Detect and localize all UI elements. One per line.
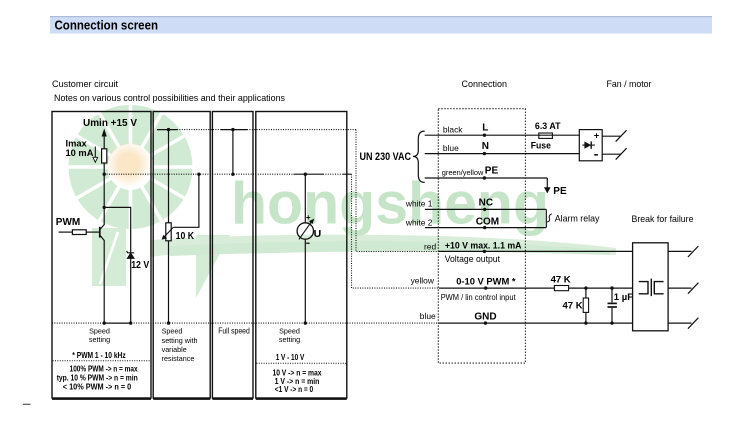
wire rectifier out bottom <box>602 153 621 155</box>
wire motor out 1 <box>668 250 691 252</box>
svg-text:+: + <box>306 213 311 222</box>
svg-text:hongsheng: hongsheng <box>231 171 549 237</box>
svg-text:Customer circuit: Customer circuit <box>52 79 118 89</box>
svg-text:typ. 10 % PWM -> n = min: typ. 10 % PWM -> n = min <box>57 374 138 383</box>
svg-text:Speed: Speed <box>162 327 183 336</box>
wire 10K top <box>168 130 170 223</box>
svg-text:UN 230 VAC: UN 230 VAC <box>360 151 412 163</box>
node dot 10K top <box>167 128 170 131</box>
wire 10K bottom to gnd <box>168 241 170 323</box>
svg-text:black: black <box>443 124 463 134</box>
slash break top <box>616 130 627 141</box>
full speed jumper wire <box>232 130 234 175</box>
box 2 variable resistance <box>153 112 210 399</box>
box 1 customer circuit PWM <box>52 112 151 399</box>
svg-text:PE: PE <box>553 186 567 197</box>
alarm relay brace <box>547 214 552 222</box>
fuse F1 <box>539 133 553 138</box>
resistor R1 (current limit) <box>102 149 107 163</box>
svg-text:1 V - 10 V: 1 V - 10 V <box>276 353 305 362</box>
node dot cap bottom <box>610 321 613 324</box>
page corner dash <box>23 403 31 405</box>
svg-text:blue: blue <box>420 311 436 321</box>
node dot voltmeter tap <box>304 173 307 176</box>
resistor 47K vertical <box>583 298 588 312</box>
svg-text:GND: GND <box>474 311 496 322</box>
svg-text:10 mA: 10 mA <box>66 148 94 158</box>
svg-text:resistance: resistance <box>162 354 195 363</box>
arrow down Imax <box>93 147 98 163</box>
wire green/yellow PE <box>425 177 548 179</box>
node dot PE <box>483 176 486 179</box>
wire black L <box>425 134 580 136</box>
svg-text:10 K: 10 K <box>176 231 195 242</box>
node dot zener gnd <box>129 321 132 324</box>
svg-text:Notes on various control possi: Notes on various control possibilities a… <box>54 93 285 103</box>
watermark orange circle <box>106 141 152 187</box>
dotted drop +10V to red wire <box>356 130 439 252</box>
svg-text:U: U <box>314 228 322 240</box>
svg-text:blue: blue <box>443 143 459 153</box>
wire emitter to gnd line <box>103 240 105 323</box>
resistor R2 (base) <box>72 230 86 235</box>
wire branch to zener <box>104 207 131 252</box>
voltmeter U1 circle <box>297 223 313 239</box>
svg-text:Alarm relay: Alarm relay <box>555 213 600 224</box>
control line dotted through boxes <box>104 173 351 175</box>
resistor 47K horizontal <box>554 286 568 291</box>
wire white2 COM <box>425 227 546 229</box>
svg-text:<1 V -> n = 0: <1 V -> n = 0 <box>275 385 314 394</box>
svg-text:white 2: white 2 <box>405 218 433 228</box>
node dot jumper top <box>231 128 234 131</box>
label minus <box>594 154 598 156</box>
wire wiper tap <box>173 174 199 227</box>
label Imax 10 mA <box>66 138 94 158</box>
wire rectifier out top <box>602 135 621 137</box>
svg-text:setting with: setting with <box>162 336 198 345</box>
svg-text:* PWM 1 - 10 kHz: * PWM 1 - 10 kHz <box>72 351 125 360</box>
gnd solid segment box1 <box>104 322 131 324</box>
node dot emitter gnd <box>103 321 106 324</box>
slash break bottom <box>616 148 627 159</box>
slash break motor 1 <box>688 246 699 257</box>
wire 47K vertical <box>585 288 587 323</box>
node dot 10K gnd <box>167 321 170 324</box>
wire zener to gnd line <box>130 258 132 323</box>
node dot NC <box>483 208 486 211</box>
voltmeter arrow <box>299 219 314 240</box>
node dot L <box>483 134 486 137</box>
box4 dotted separator <box>256 362 346 364</box>
wire red +10V <box>439 250 633 252</box>
wire base <box>86 231 99 233</box>
svg-text:Fan / motor: Fan / motor <box>607 79 652 89</box>
watermark sunburst petals <box>68 105 192 229</box>
box1 label speed setting <box>89 327 110 344</box>
svg-text:Connection screen: Connection screen <box>55 18 159 33</box>
node dot N <box>483 152 486 155</box>
watermark swoosh <box>150 235 616 257</box>
watermark stem gap <box>100 232 118 284</box>
+10V top line through boxes <box>157 129 356 131</box>
potentiometer 10K body <box>166 223 171 241</box>
gnd dotted line across boxes <box>52 322 439 324</box>
svg-text:Full speed: Full speed <box>218 327 250 336</box>
svg-text:Imax: Imax <box>66 138 88 148</box>
box1 PWM mapping text <box>57 365 138 392</box>
box1 dotted separator <box>53 360 151 362</box>
svg-text:setting: setting <box>279 335 300 344</box>
node dot COM <box>483 226 486 229</box>
node dot voltmeter gnd <box>304 321 307 324</box>
svg-text:COM: COM <box>476 217 499 228</box>
svg-text:green/yellow: green/yellow <box>442 170 485 177</box>
box 4 voltage source <box>256 112 347 399</box>
svg-text:PE: PE <box>485 165 499 176</box>
svg-text:< 10% PWM -> n = 0: < 10% PWM -> n = 0 <box>63 383 132 392</box>
dotted drop control to yellow wire <box>352 174 439 288</box>
wire blue N <box>425 153 580 155</box>
voltmeter minus <box>306 243 309 244</box>
title bar <box>50 17 712 34</box>
svg-text:+: + <box>594 130 600 141</box>
svg-text:12 V: 12 V <box>131 260 149 271</box>
wire blue GND <box>439 322 633 324</box>
wire voltmeter bottom <box>304 239 306 323</box>
svg-text:0-10 V PWM *: 0-10 V PWM * <box>456 276 516 287</box>
alarm relay link wire <box>545 209 547 227</box>
svg-text:Break for failure: Break for failure <box>632 214 694 225</box>
svg-text:N: N <box>482 141 489 152</box>
node dot wiper tap <box>197 173 200 176</box>
node dot 47K top <box>584 286 587 289</box>
wire R1 to node <box>103 163 105 225</box>
diode D1 <box>582 141 595 148</box>
slash break motor 3 <box>688 318 699 329</box>
potentiometer wiper arrow <box>162 227 174 239</box>
svg-text:47 K: 47 K <box>551 275 571 286</box>
node dot 0-10V <box>484 286 487 289</box>
wire motor out 3 <box>668 322 691 324</box>
svg-text:100% PWM -> n = max: 100% PWM -> n = max <box>70 365 138 374</box>
node dot GND <box>484 321 487 324</box>
svg-text:Fuse: Fuse <box>531 140 551 151</box>
watermark petal gaps <box>67 103 195 231</box>
box bottom emphasis <box>52 398 151 400</box>
svg-text:NC: NC <box>479 198 493 209</box>
arrow up +15V <box>102 129 107 149</box>
svg-text:yellow: yellow <box>411 276 435 286</box>
svg-text:1 µF: 1 µF <box>614 292 633 303</box>
box 3 full speed <box>212 112 253 399</box>
svg-text:Connection: Connection <box>462 79 508 89</box>
slash break motor 2 <box>688 283 699 294</box>
watermark stem and wedge <box>92 228 230 298</box>
wire motor out 2 <box>668 287 691 289</box>
node dot on control line box1 <box>103 173 106 176</box>
dashed connection terminal box <box>438 109 525 363</box>
box4 voltage mapping text <box>272 368 321 393</box>
node dot collector branch <box>103 206 106 209</box>
transistor Q1 <box>100 224 105 240</box>
svg-text:red: red <box>424 241 436 251</box>
svg-text:PWM: PWM <box>56 217 80 228</box>
brace mains <box>413 131 425 182</box>
svg-text:PWM / lin control input: PWM / lin control input <box>441 293 517 302</box>
svg-text:Umin +15 V: Umin +15 V <box>83 118 137 129</box>
svg-text:setting: setting <box>89 335 110 344</box>
wire voltmeter top <box>304 174 306 223</box>
motor symbol <box>639 279 664 297</box>
capacitor C1 1uF <box>608 288 617 323</box>
node dot jumper bottom <box>231 173 234 176</box>
svg-text:6.3 AT: 6.3 AT <box>535 121 561 132</box>
svg-text:white 1: white 1 <box>405 199 433 209</box>
box4 label speed setting <box>279 327 300 344</box>
svg-text:variable: variable <box>162 345 187 354</box>
motor terminal box <box>633 243 669 331</box>
svg-text:L: L <box>482 123 488 134</box>
node dot +10V <box>483 250 486 253</box>
PE drop arrow <box>544 178 551 193</box>
diode rectifier box <box>579 130 602 161</box>
node dot cap top <box>610 286 613 289</box>
wire yellow 0-10V <box>439 287 633 289</box>
svg-text:Voltage output: Voltage output <box>445 254 501 265</box>
wire PWM input <box>59 231 73 233</box>
wire white1 NC <box>425 208 546 210</box>
zener diode 12 V <box>127 251 135 259</box>
svg-text:47 K: 47 K <box>563 300 583 311</box>
watermark logo <box>67 103 617 298</box>
box2 label speed setting with variable resistance <box>162 327 198 364</box>
node dot 47K bottom <box>584 321 587 324</box>
svg-text:+10 V max. 1.1 mA: +10 V max. 1.1 mA <box>445 241 522 252</box>
